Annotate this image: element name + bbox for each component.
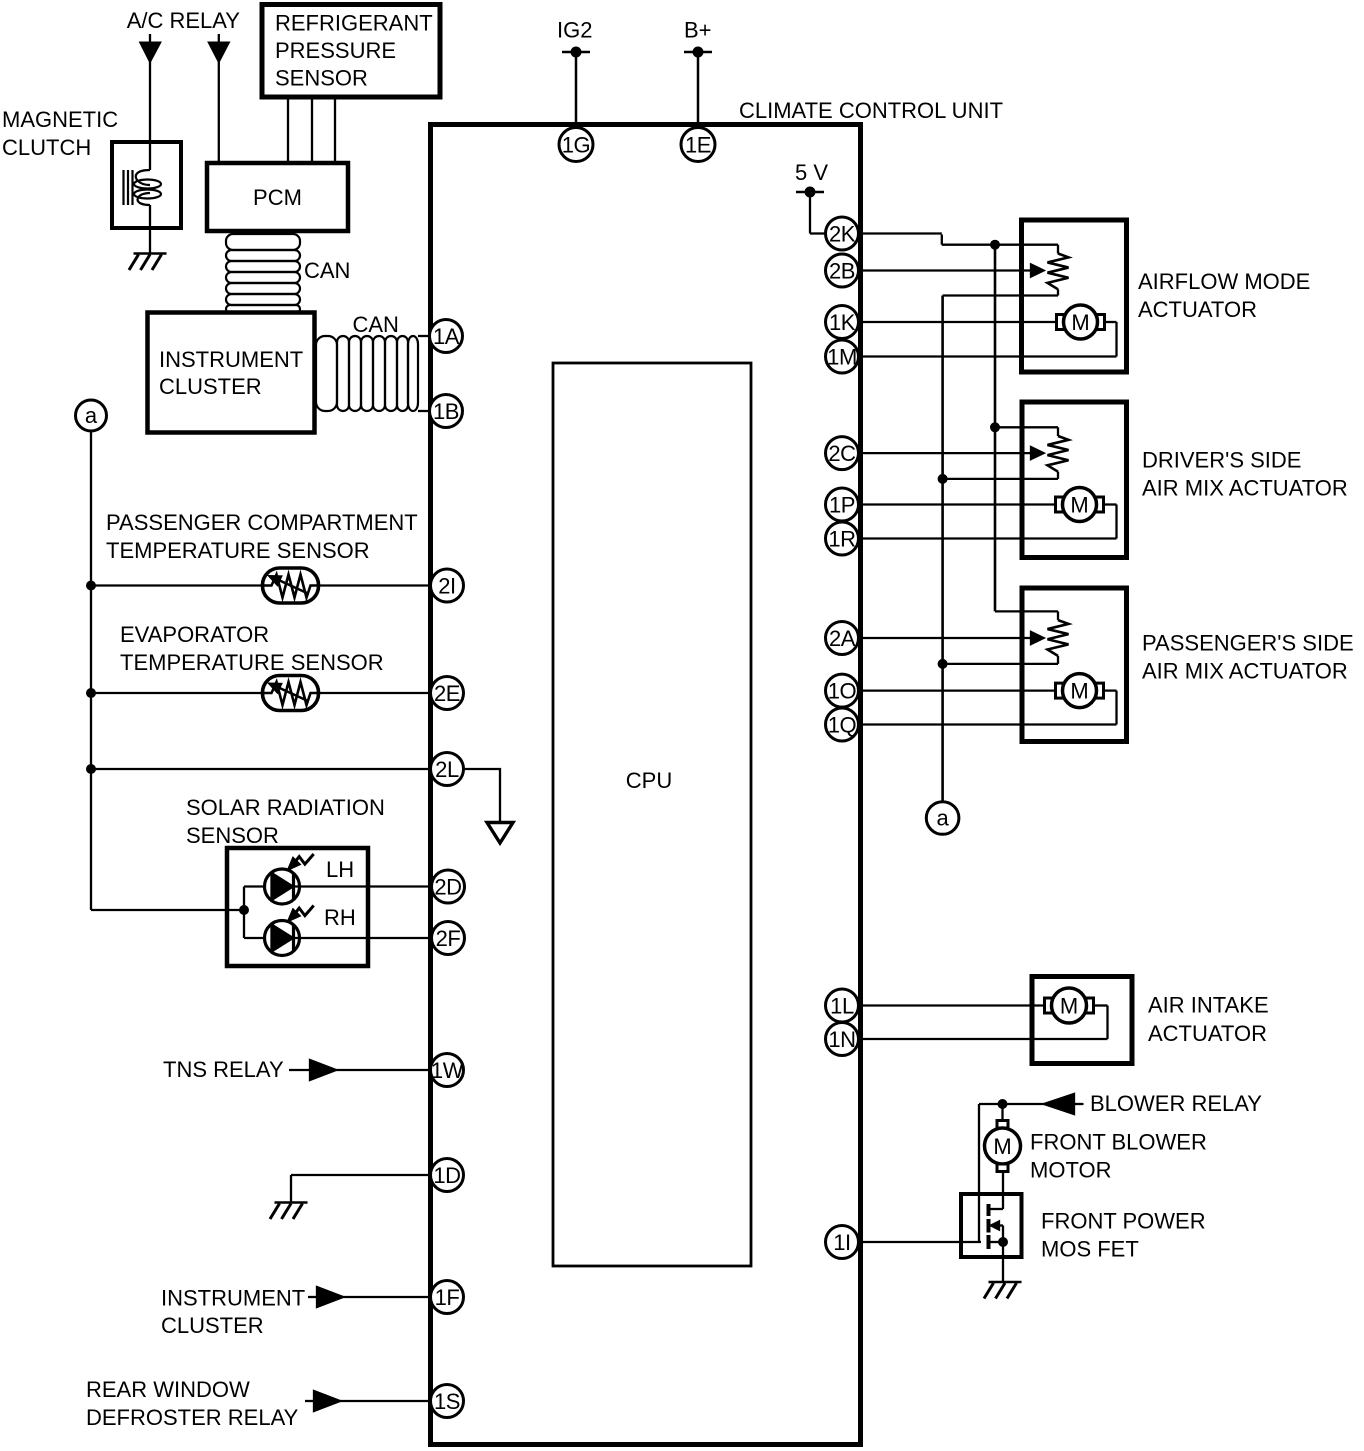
svg-text:DEFROSTER RELAY: DEFROSTER RELAY (86, 1405, 299, 1430)
svg-text:CLUTCH: CLUTCH (2, 135, 91, 160)
svg-text:1A: 1A (433, 324, 460, 349)
svg-text:ACTUATOR: ACTUATOR (1138, 297, 1257, 322)
svg-text:INSTRUMENT: INSTRUMENT (161, 1286, 305, 1311)
svg-text:DRIVER'S SIDE: DRIVER'S SIDE (1142, 448, 1301, 473)
svg-text:2B: 2B (829, 259, 855, 284)
svg-text:1D: 1D (433, 1163, 460, 1188)
svg-text:SENSOR: SENSOR (275, 66, 368, 91)
svg-text:TEMPERATURE SENSOR: TEMPERATURE SENSOR (106, 538, 370, 563)
svg-text:PASSENGER COMPARTMENT: PASSENGER COMPARTMENT (106, 510, 418, 535)
svg-text:2L: 2L (435, 757, 459, 782)
svg-text:1B: 1B (433, 399, 459, 424)
svg-text:2F: 2F (436, 926, 461, 951)
svg-text:a: a (85, 403, 98, 428)
svg-text:1W: 1W (431, 1058, 464, 1083)
svg-text:CPU: CPU (626, 768, 672, 793)
svg-text:AIR MIX ACTUATOR: AIR MIX ACTUATOR (1142, 476, 1348, 501)
svg-text:MOTOR: MOTOR (1030, 1158, 1111, 1183)
svg-text:1N: 1N (828, 1027, 855, 1052)
svg-text:1M: 1M (827, 345, 857, 370)
svg-text:AIR MIX ACTUATOR: AIR MIX ACTUATOR (1142, 659, 1348, 684)
svg-text:PCM: PCM (253, 185, 302, 210)
svg-text:a: a (936, 806, 949, 831)
svg-text:2D: 2D (434, 875, 461, 900)
svg-text:1Q: 1Q (828, 713, 857, 738)
svg-text:M: M (1071, 310, 1089, 335)
svg-text:MAGNETIC: MAGNETIC (2, 107, 118, 132)
svg-text:MOS FET: MOS FET (1041, 1237, 1139, 1262)
svg-text:M: M (993, 1134, 1011, 1159)
svg-text:B+: B+ (684, 18, 712, 43)
svg-text:SENSOR: SENSOR (186, 823, 279, 848)
svg-text:AIR INTAKE: AIR INTAKE (1148, 993, 1269, 1018)
svg-text:AIRFLOW MODE: AIRFLOW MODE (1138, 269, 1310, 294)
svg-text:FRONT POWER: FRONT POWER (1041, 1209, 1206, 1234)
svg-text:RH: RH (324, 905, 356, 930)
svg-text:A/C RELAY: A/C RELAY (127, 8, 241, 33)
svg-text:CLUSTER: CLUSTER (159, 374, 262, 399)
svg-text:FRONT BLOWER: FRONT BLOWER (1030, 1130, 1207, 1155)
svg-text:2E: 2E (434, 681, 460, 706)
svg-text:1S: 1S (434, 1389, 460, 1414)
svg-text:LH: LH (326, 857, 354, 882)
svg-text:SOLAR RADIATION: SOLAR RADIATION (186, 795, 385, 820)
svg-text:CLUSTER: CLUSTER (161, 1313, 264, 1338)
svg-text:1L: 1L (830, 994, 854, 1019)
svg-text:PRESSURE: PRESSURE (275, 38, 396, 63)
svg-text:CAN: CAN (353, 312, 399, 337)
svg-text:EVAPORATOR: EVAPORATOR (120, 622, 269, 647)
svg-text:REAR WINDOW: REAR WINDOW (86, 1377, 250, 1402)
svg-text:1I: 1I (833, 1230, 851, 1255)
svg-text:1F: 1F (435, 1285, 460, 1310)
svg-text:M: M (1060, 994, 1078, 1019)
svg-text:5 V: 5 V (795, 160, 828, 185)
svg-text:M: M (1070, 493, 1088, 518)
svg-text:2C: 2C (828, 441, 856, 466)
svg-text:1R: 1R (828, 527, 855, 552)
svg-text:M: M (1070, 679, 1088, 704)
svg-text:BLOWER RELAY: BLOWER RELAY (1090, 1091, 1262, 1116)
svg-text:1K: 1K (829, 310, 856, 335)
svg-text:1E: 1E (685, 133, 711, 158)
svg-text:ACTUATOR: ACTUATOR (1148, 1021, 1267, 1046)
svg-text:2K: 2K (829, 222, 856, 247)
svg-text:CLIMATE CONTROL UNIT: CLIMATE CONTROL UNIT (739, 98, 1003, 123)
svg-text:TEMPERATURE SENSOR: TEMPERATURE SENSOR (120, 650, 384, 675)
svg-text:1P: 1P (829, 493, 855, 518)
svg-text:2I: 2I (438, 574, 456, 599)
svg-text:TNS RELAY: TNS RELAY (163, 1057, 284, 1082)
svg-text:1G: 1G (562, 133, 591, 158)
svg-text:2A: 2A (829, 626, 856, 651)
svg-text:REFRIGERANT: REFRIGERANT (275, 11, 433, 36)
svg-text:INSTRUMENT: INSTRUMENT (159, 347, 303, 372)
svg-text:CAN: CAN (304, 258, 350, 283)
svg-text:1O: 1O (828, 679, 857, 704)
svg-text:PASSENGER'S SIDE: PASSENGER'S SIDE (1142, 631, 1354, 656)
svg-text:IG2: IG2 (557, 18, 592, 43)
